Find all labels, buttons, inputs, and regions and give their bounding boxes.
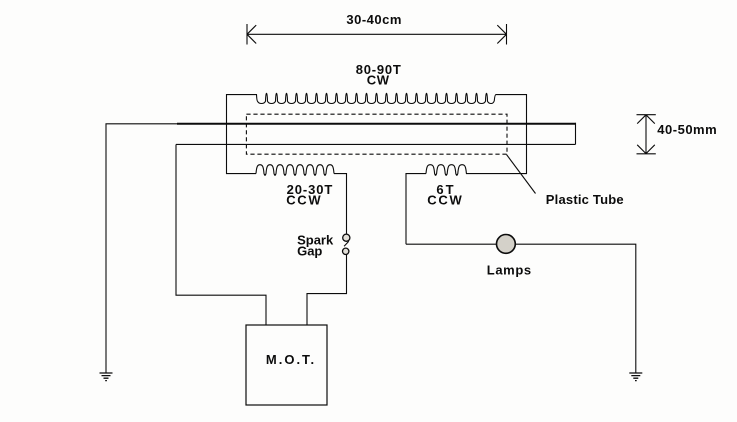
svg-text:Lamps: Lamps (487, 262, 532, 277)
wire L2 to spark gap (334, 174, 347, 234)
wire L3 left lead (406, 174, 426, 245)
inductor L2 20-30T primary coil (256, 165, 334, 176)
ground right (629, 373, 642, 381)
dimension arrow 30-40cm (247, 24, 507, 45)
wire right frame (466, 95, 527, 174)
wire left frame (227, 95, 257, 174)
svg-text:M.O.T.: M.O.T. (266, 352, 316, 367)
lamp DS1 (497, 235, 516, 254)
wire lamp to right ground (515, 244, 636, 373)
spark gap (343, 234, 350, 254)
inductor L3 6T coil (426, 165, 466, 176)
svg-text:CCW: CCW (427, 192, 463, 207)
svg-text:CW: CW (367, 73, 390, 88)
ground left (100, 373, 113, 381)
inductor L1 80-90T secondary coil (256, 93, 496, 103)
dimension arrow 40-50mm (637, 115, 656, 154)
wire spark gap to MOT (307, 255, 347, 326)
plastic tube dashed outline (246, 114, 507, 154)
svg-text:40-50mm: 40-50mm (657, 122, 717, 137)
svg-text:30-40cm: 30-40cm (346, 12, 402, 27)
svg-text:Gap: Gap (297, 244, 322, 259)
wire L3 to lamp (406, 243, 496, 245)
wire tube bottom to MOT (176, 144, 266, 325)
svg-text:CCW: CCW (286, 192, 322, 207)
wire tube top to left ground (106, 124, 177, 373)
plastic tube body (177, 123, 576, 125)
transformer M.O.T. box (246, 325, 327, 405)
svg-text:Plastic Tube: Plastic Tube (546, 192, 624, 207)
leader line plastic tube (507, 155, 536, 194)
